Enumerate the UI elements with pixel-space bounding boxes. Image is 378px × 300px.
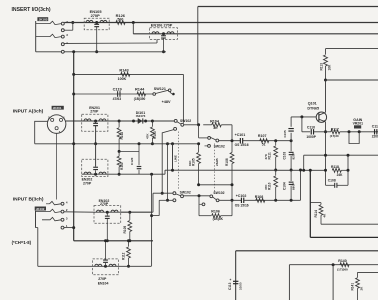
junction x348 top [347,154,350,157]
wire insert return vertical x197.8 [197,7,199,125]
svg-text:R144: R144 [135,87,145,92]
wire R143 corner down x183.4 [182,74,184,122]
wire pad B elbow up [231,199,234,202]
inductor EN106 left [152,32,159,34]
junction insert tie [71,21,74,24]
svg-text:(17)360: (17)360 [337,267,348,271]
resistor R110 vertical [275,170,277,176]
svg-text:680P: 680P [292,183,296,190]
junction R113 bottom [324,79,327,82]
switch SW102 section B [210,195,213,198]
svg-text:SW102: SW102 [180,190,191,194]
wire phantom y94 [74,93,153,95]
wire EN102 through [94,211,121,213]
resistor R114 vertical [310,202,321,204]
junction phantom on shield [72,93,75,96]
wire B hot riser x153 [152,193,154,212]
junction R143 on shield [72,73,75,76]
junction pad A [197,123,200,126]
lever contact 3 [36,34,62,37]
inductor EN106 right [167,32,174,34]
junction R126 out [132,21,135,24]
svg-text:LINE: LINE [173,155,177,162]
junction R140 node [332,263,335,266]
resistor R112 vertical [128,241,130,247]
resistor R103 vertical [151,120,154,123]
contact SW102 A lower [208,145,211,148]
inductor EN105 left [86,20,93,22]
EMI filter EN102 box [94,206,121,224]
junction base-C110 [300,115,303,118]
svg-text:+C102: +C102 [236,194,247,198]
junction EN201 center [94,120,97,123]
svg-text:C111: C111 [372,125,378,129]
wire return bus y33.8 [133,33,378,35]
wire drop x333.1 [332,265,334,300]
svg-text:270P: 270P [83,182,92,186]
wire B hot y212.2 from EN102 [121,211,153,213]
wire ground bus y51.8 [64,51,166,53]
wire emitter vertical [325,122,327,185]
wire bracket bottom [36,227,38,229]
junction B4-shield [72,226,75,229]
svg-text:SW102: SW102 [214,144,225,148]
svg-text:JK201: JK201 [53,106,62,110]
resistor R113 vertical [325,49,327,55]
svg-text:R113: R113 [319,63,323,71]
wire send bus y22.5 [64,22,378,24]
junction EN102 center [106,211,109,214]
svg-text:R102: R102 [120,132,124,140]
insert jack contact 2 [61,29,64,32]
capacitor C113 polarized [233,280,238,282]
svg-text:INSERT I/O(3ch): INSERT I/O(3ch) [12,7,51,13]
wire VR loop [349,132,359,144]
junction riser-mid [302,169,305,172]
junction tie left [197,183,200,186]
junction R118 right [347,169,350,172]
svg-text:2200: 2200 [372,135,378,139]
wire drop to return bus [132,23,134,34]
wire alt jog y215.6 [152,215,160,217]
input B jack bracket [35,211,37,228]
wire XLR shell loop [35,121,48,144]
linkage dashed input select gang [177,132,179,191]
junction R103 bottom [151,142,154,145]
lever B2 [36,209,62,212]
svg-text:+48V: +48V [162,100,171,104]
junction EN201 cap on mid ground [94,142,97,145]
wire pad line B y195.8 [184,195,211,197]
capacitor EN202 shunt up [95,170,97,174]
junction EN105 cap on ground bus [95,50,98,53]
wire collector vertical [325,80,327,112]
wire B shell drop x37.8 [37,228,39,267]
junction mid C103 [290,169,293,172]
resistor R109 vertical [129,212,131,220]
svg-text:INPUT B(3ch): INPUT B(3ch) [13,196,44,202]
wire bracket to contact5 [36,51,62,53]
junction cluster B2 [290,199,293,202]
wire x348 vertical [347,155,349,185]
wire after C101 [243,140,291,142]
wire riser into EN106 [156,39,158,43]
wire SW101 A alt to B hot x162.2 [162,130,174,194]
linkage dashed SW102 [214,144,216,194]
connector XLR input A [47,115,66,134]
junction R112 bottom [127,265,130,268]
insert jack contact 5 (sleeve) [61,50,64,53]
wire bottom drop x235.7 [235,251,237,300]
svg-text:Q101: Q101 [308,101,317,105]
junction mid R111 [274,169,277,172]
junction R102 bottom [118,150,121,153]
junction EN106 center [162,32,165,35]
input B contact 4 [61,226,64,229]
junction R109 ground [128,239,131,242]
capacitor EN106 shunt [163,34,165,36]
junction R112 top [127,239,130,242]
wire B contact4 to shield [64,227,74,229]
junction thick fold [309,169,312,172]
inductor EN104 right [109,264,116,266]
svg-text:100K: 100K [118,77,127,81]
svg-text:VR201: VR201 [353,122,363,126]
svg-text:IS2473: IS2473 [136,114,146,118]
svg-text:270P: 270P [90,110,99,114]
resistor R106 vertical mid [230,153,234,164]
svg-text:R108: R108 [255,195,264,199]
svg-text:+: + [230,278,232,282]
svg-text:R103: R103 [153,131,157,139]
svg-text:R118: R118 [331,165,339,169]
insert jack bracket [35,21,37,52]
lever B1 [50,201,62,204]
junction R118 left [324,169,327,172]
junction EN106 cap on ground bus [162,50,165,53]
svg-text:270P: 270P [91,13,100,18]
wire riser x303.7 [303,155,305,170]
svg-text:(17)30: (17)30 [330,134,339,138]
junction ground-shield [72,50,75,53]
svg-text:270P: 270P [100,202,109,206]
svg-text:R107: R107 [258,134,267,138]
inductor EN202 left [84,172,91,174]
junction EN202 center [94,173,97,176]
svg-text:JK103: JK103 [39,17,48,21]
svg-text:91K: 91K [188,160,192,166]
svg-text:C119: C119 [113,87,123,92]
inductor EN201 right [99,119,106,121]
svg-text:270P: 270P [98,277,107,281]
wire alt riser x159.2 [158,200,160,215]
svg-text:JK102: JK102 [36,207,45,211]
wire stub y151.4 [119,150,139,152]
svg-text:SW121: SW121 [154,87,166,91]
svg-text:R101: R101 [120,162,124,170]
wire top right r113 feed y48.6 [326,48,378,50]
svg-text:(1B)390: (1B)390 [134,97,146,101]
resistor R102 vertical [118,120,121,123]
junction tie right [231,183,234,186]
wire contact4 row to EN106 [64,42,157,44]
switch SW102 section A bypass [198,125,200,138]
wire R143 feed y74.4 [74,73,184,75]
switch SW101 B contact top [173,192,176,195]
svg-text:R105: R105 [192,158,196,166]
junction cluster A2 [290,139,293,142]
resistor R101 vertical [117,156,121,167]
svg-text:C120: C120 [130,157,134,165]
insert jack contact 4 [61,43,64,46]
wire B ground bus y240.8 [74,240,153,242]
junction EN102 cap ground [106,239,109,242]
svg-text:47K: 47K [146,133,150,139]
junction mid-B riser [299,169,302,172]
svg-text:820P: 820P [292,152,296,159]
svg-text:1000P: 1000P [306,135,316,139]
wire elbow mid down x172.5 [172,144,174,170]
resistor R106 pad B [198,196,200,216]
junction bypass-R104 [231,139,234,142]
connector JK102 label blob [35,207,46,211]
svg-text:EN106 270P: EN106 270P [151,23,173,27]
svg-text:OS 15/16: OS 15/16 [235,143,249,147]
resistor R141 vertical [356,278,360,289]
junction shield x73.7 [72,142,75,145]
input B contact 3 [61,218,64,221]
svg-text:47K: 47K [264,153,268,159]
junction EN104 center [104,265,107,268]
resistor R105 vertical [198,144,200,152]
inductor EN104 left [95,264,102,266]
wire B alt to ground x167.5 [167,144,169,201]
junction VR right [358,130,361,133]
capacitor EN105 shunt [96,23,98,25]
wire contact2 tie [64,29,73,31]
junction C120 top [138,142,141,145]
wire y264.7 to right [289,264,378,266]
svg-text:R109: R109 [123,226,127,234]
lever contact 1 [36,21,62,24]
junction EN105 center [95,21,98,24]
wire normal tie vertical [72,23,74,31]
EMI filter EN201 box [82,114,108,131]
svg-text:(*CH=1-8): (*CH=1-8) [12,240,32,245]
wire thick fold y237.4 [310,236,378,238]
junction EN104 cap ground [104,239,107,242]
wire corner x289.4 [288,265,290,300]
wire input A hot y121 [66,120,174,122]
EMI filter EN106 box [150,28,178,40]
svg-text:R114: R114 [314,210,318,218]
svg-text:10/50: 10/50 [238,282,242,290]
wire shield vertical x73.7 [73,52,75,241]
junction B-cold alt tie [150,214,153,217]
input B contact 1 [61,202,64,205]
junction DI101 right [144,120,147,123]
wire mid ground y143.8 [35,143,199,145]
svg-text:R141: R141 [351,283,355,291]
wire B-cold drop x151.6 [151,174,153,266]
switch SW101 B common [176,194,181,196]
EMI filter EN105 box [84,18,109,30]
wire base riser x291.1 [290,117,292,127]
capacitor C103 [290,141,292,152]
wire B hot y193.2 [153,192,173,194]
insert jack contact 3 [61,35,64,38]
svg-text:EN104: EN104 [98,282,109,286]
inductor EN105 right [100,20,107,22]
junction emitter-R117 [324,130,327,133]
svg-text:R112: R112 [122,252,126,260]
wire alt contact y200.3 [159,199,173,201]
wire input A cold y174.2 [82,173,165,175]
svg-text:OS 15/16: OS 15/16 [235,203,249,207]
svg-text:R104: R104 [210,119,220,123]
inductor EN102 right [111,210,118,212]
junction EN102 out [128,211,131,214]
capacitor EN102 shunt [106,212,108,215]
wire bottom bus y250.8 [236,250,378,252]
capacitor C104 [290,170,292,181]
svg-text:C110: C110 [307,125,315,129]
connector JK201 label blob [52,106,64,110]
svg-text:DTN65: DTN65 [307,107,319,111]
svg-text:R106: R106 [225,158,229,166]
wire C110 elbow x301.9 [301,117,303,132]
wire thick fold x310.3 [309,170,311,237]
svg-text:C103: C103 [283,152,287,160]
wire B cold y266.3 [38,265,152,267]
capacitor C105 on riser [288,128,293,130]
wire insert return top bus y6.5 [198,6,378,8]
svg-text:+C101: +C101 [235,133,246,137]
svg-text:R140: R140 [338,259,346,263]
connector JK103 label blob [37,17,48,21]
wire pad line A y124.8 [184,124,199,126]
lever B3 [42,217,61,220]
junction R101 bottom [118,173,121,176]
wire bottom tie y184.8 [199,184,232,186]
svg-text:C105: C105 [283,130,287,138]
svg-text:24K: 24K [337,173,344,177]
wire y80 to right edge [326,79,378,81]
wire y272.4 right edge [358,271,378,273]
svg-text:47/63: 47/63 [113,97,122,101]
junction A-alt on B hot [161,192,164,195]
EMI filter EN202 box [82,159,108,176]
capacitor EN201 shunt [95,121,97,123]
junction pad B [198,194,201,197]
inductor EN202 right [99,172,106,174]
junction B-alt ground tie [166,142,169,145]
junction emitter-y155 [324,154,327,157]
svg-text:47K: 47K [264,184,268,190]
inductor EN201 left [84,119,91,121]
switch SW101 B contact alt [173,199,176,202]
svg-text:R110: R110 [267,182,271,190]
junction cluster B1 [274,199,277,202]
wire mid node y170 [165,169,326,171]
wire long node y155.2 [304,154,378,156]
wire cold riser x165 [164,170,166,174]
wire B contact2 to EN102 [64,211,94,213]
wire B up elbow x300.5 [300,170,302,200]
svg-text:C104: C104 [283,182,287,190]
svg-text:C113: C113 [228,282,232,290]
capacitor EN104 shunt up [105,263,107,266]
svg-text:C108: C108 [328,179,336,183]
junction VR left [348,130,351,133]
wire after switch B y200.3 [219,199,241,201]
junction cluster A1 [274,139,277,142]
EMI filter EN104 box [93,259,119,275]
wire R104 elbow down [231,125,233,141]
svg-text:R111: R111 [267,152,271,159]
terminal +48V [170,92,172,94]
svg-text:INPUT A(3ch): INPUT A(3ch) [13,109,44,115]
wire C110 line y131.8 [302,131,310,133]
insert jack contact 1 (tip) [61,22,64,25]
contact SW102 B lower [202,203,205,206]
inductor EN102 left [97,210,104,212]
capacitor C120 [138,144,140,165]
wire inner bottom y224.2 [321,223,378,225]
wire XLR pin3 drop [56,133,58,199]
resistor R111 vertical [275,141,277,146]
svg-text:SW102: SW102 [180,119,191,123]
input B contact 2 [61,210,64,213]
svg-text:SW102: SW102 [213,191,224,195]
wire R141 stub [357,272,359,277]
wire base y116.9 [291,116,316,118]
switch SW101 input select [174,119,177,122]
svg-text:26dB: 26dB [215,158,219,166]
svg-text:10K: 10K [328,64,332,71]
